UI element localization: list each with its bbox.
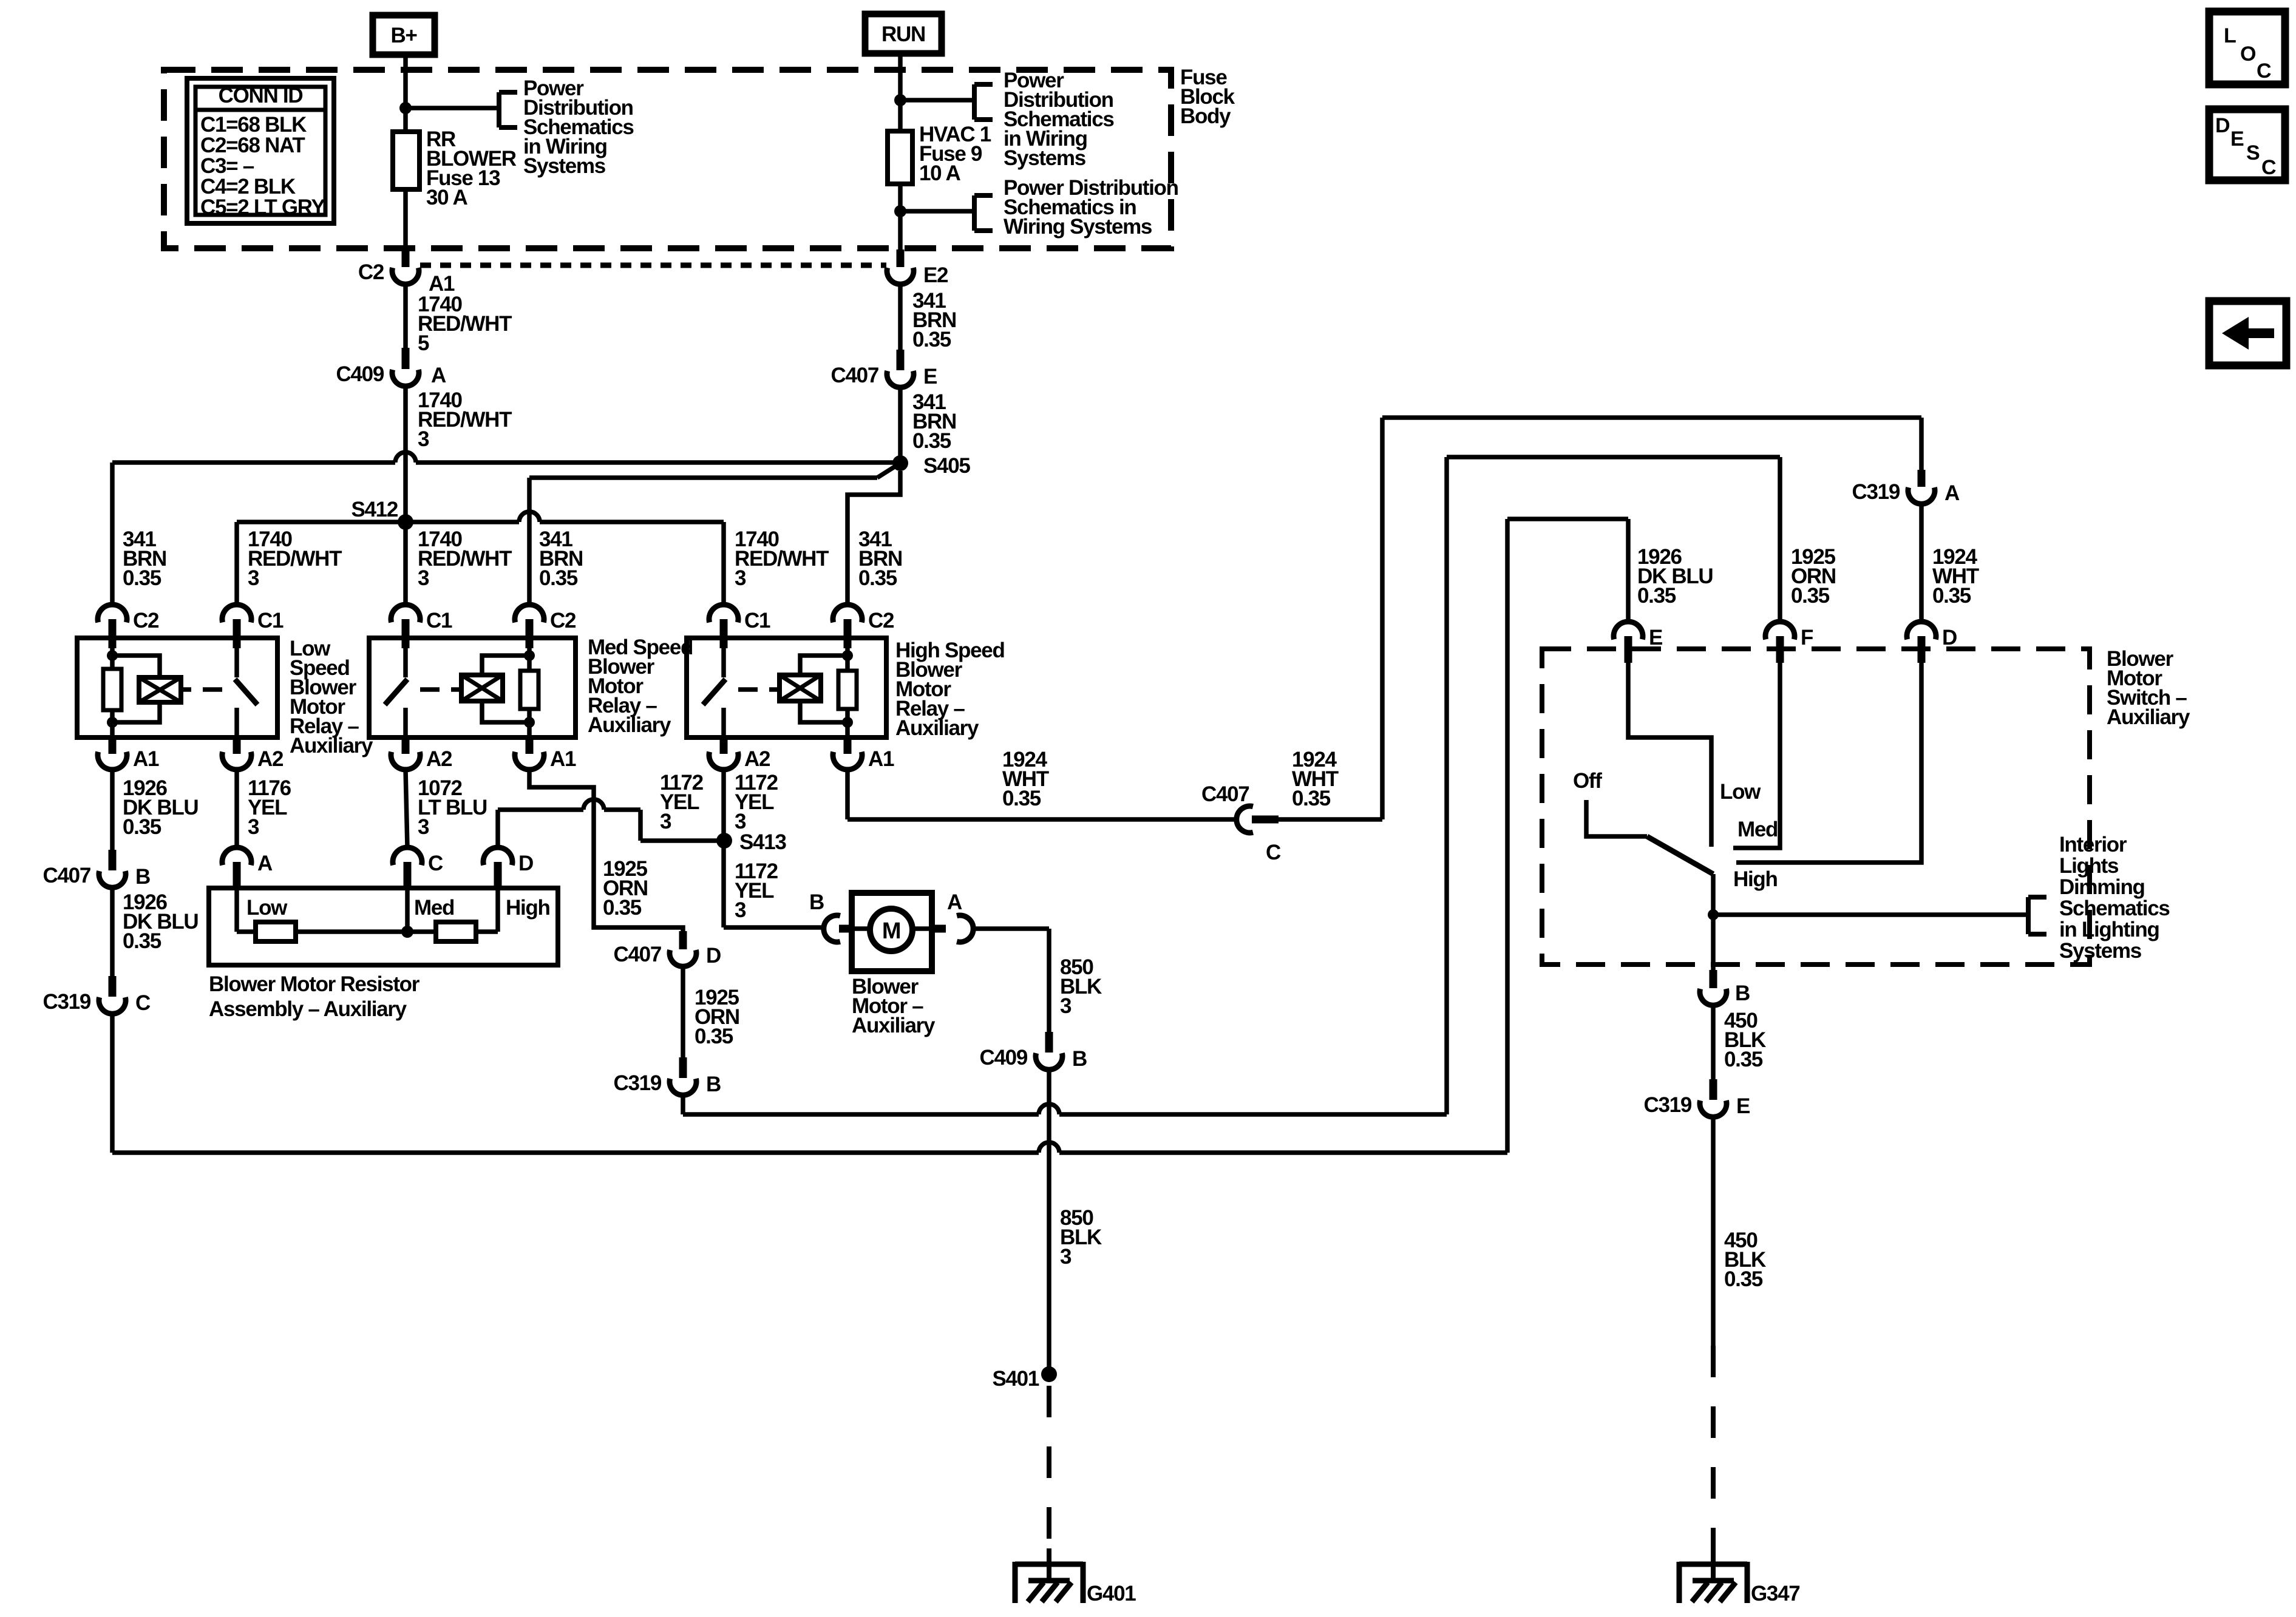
connector switch pin B (1710, 970, 1717, 988)
margin DESC box (2209, 109, 2285, 180)
connector motor pin B (824, 915, 840, 942)
resistor element low (256, 922, 296, 941)
svg-text:5: 5 (418, 331, 429, 355)
connector switch pin F (1765, 622, 1795, 639)
svg-text:A: A (1944, 481, 1960, 505)
wire C407D to C319B (681, 966, 685, 1057)
svg-text:3: 3 (1060, 1245, 1072, 1269)
svg-text:G347: G347 (1751, 1582, 1799, 1605)
svg-text:Med: Med (414, 896, 454, 920)
terminal RUN box (865, 14, 942, 53)
wire C319E down 450 BLK (1711, 1117, 1716, 1346)
ground G347 (1711, 1548, 1716, 1582)
svg-text:E: E (1649, 626, 1662, 649)
relay high coil link dashes (738, 687, 758, 692)
wire switch B to C319 E (1711, 1005, 1716, 1079)
svg-text:Med: Med (1737, 818, 1778, 841)
wire 1925 ORN to blower switch F (681, 1095, 685, 1114)
svg-text:Auxiliary: Auxiliary (2107, 705, 2190, 729)
node splice S401 (1041, 1366, 1057, 1382)
connector C319 pin B (679, 1057, 687, 1078)
off-page bracket interior lights dimming (2026, 897, 2031, 934)
relay low speed blower motor relay box (77, 638, 277, 737)
blower motor M circle (870, 909, 912, 951)
relay med coil resistor (527, 648, 532, 671)
svg-text:in Lighting: in Lighting (2059, 918, 2159, 941)
margin arrow box (2209, 301, 2286, 365)
svg-text:A1: A1 (550, 747, 576, 771)
svg-text:RED/WHT: RED/WHT (418, 408, 512, 432)
wire C409B to S401 (1047, 1070, 1051, 1374)
svg-text:3: 3 (418, 566, 429, 590)
relay med coil link dashes (420, 687, 440, 692)
svg-text:Body: Body (1180, 104, 1231, 128)
node resistor junction C (401, 926, 413, 938)
svg-text:C2: C2 (868, 609, 894, 632)
svg-text:0.35: 0.35 (858, 566, 897, 590)
connector C409 pin A (402, 348, 410, 369)
svg-text:A2: A2 (744, 747, 770, 771)
wire dashed to G347 (1711, 1346, 1716, 1550)
svg-text:Dimming: Dimming (2059, 875, 2145, 899)
svg-text:0.35: 0.35 (123, 566, 161, 590)
svg-text:C319: C319 (43, 990, 91, 1014)
fuse block body dashed box (164, 70, 1171, 248)
connector resistor pin D (483, 847, 512, 865)
svg-text:3: 3 (735, 566, 746, 590)
off-page bracket power distribution (RUN lower) (972, 195, 977, 231)
svg-text:C: C (1266, 841, 1281, 864)
switch off contact and arm (1586, 800, 1647, 836)
connector boundary dotted line C2-E2 (420, 263, 886, 268)
terminal B+ box (373, 15, 435, 55)
wire C319A to switch D (1919, 504, 1924, 622)
CONN ID table box (187, 78, 334, 223)
svg-text:Systems: Systems (523, 154, 606, 178)
svg-text:High: High (506, 896, 550, 920)
relay low coil link dashes (181, 687, 191, 692)
svg-text:3: 3 (418, 427, 429, 451)
fuse HVAC 1 Fuse 9 10 A (888, 131, 912, 184)
connector motor pin A (932, 925, 946, 933)
wire C409 to S412 (403, 386, 408, 522)
svg-text:A2: A2 (426, 747, 452, 771)
svg-text:0.35: 0.35 (603, 896, 642, 920)
wire 1924 WHT high A1 to C407 C (845, 770, 850, 819)
blower motor switch dashed box (1542, 649, 2090, 964)
resistor element med (436, 922, 476, 941)
connector pin C2 med relay (515, 605, 544, 622)
svg-text:RED/WHT: RED/WHT (418, 312, 512, 336)
svg-text:C407: C407 (614, 943, 661, 966)
svg-text:B: B (135, 865, 150, 889)
svg-text:A1: A1 (868, 747, 894, 771)
svg-text:RED/WHT: RED/WHT (418, 547, 512, 571)
svg-text:Assembly – Auxiliary: Assembly – Auxiliary (209, 997, 407, 1021)
wire S412 to high relay C1 (721, 522, 726, 606)
svg-text:0.35: 0.35 (123, 815, 161, 839)
relay med coil (482, 656, 529, 675)
off-page bracket power distribution (B+) (497, 92, 501, 127)
relay high speed blower motor relay box (687, 638, 886, 737)
connector pin A2 low relay (233, 737, 241, 754)
svg-text:0.35: 0.35 (1292, 787, 1331, 810)
svg-text:0.35: 0.35 (1724, 1048, 1763, 1071)
svg-text:C1: C1 (426, 609, 452, 632)
wire C407E to S405 (898, 387, 903, 463)
node splice S412 (398, 514, 413, 530)
connector C319 pin A (1918, 470, 1926, 487)
margin LOC box (2209, 12, 2285, 84)
svg-text:3: 3 (248, 566, 259, 590)
wire fuse HVAC to connector E2 (898, 184, 903, 251)
relay med speed blower motor relay box (369, 638, 576, 737)
svg-text:S405: S405 (923, 454, 970, 478)
svg-text:C: C (135, 991, 151, 1015)
svg-text:C2: C2 (358, 260, 384, 284)
svg-text:RUN: RUN (881, 22, 925, 46)
wire 341 BRN from S405 to low relay C2 (112, 460, 395, 465)
svg-text:Low: Low (246, 896, 288, 920)
ground G401 (1047, 1548, 1051, 1582)
svg-text:E2: E2 (923, 263, 948, 287)
svg-text:Systems: Systems (2059, 939, 2142, 963)
wire S412 to low relay C1 (234, 522, 239, 606)
svg-text:C407: C407 (43, 864, 90, 887)
svg-text:Off: Off (1573, 769, 1602, 793)
svg-text:C1: C1 (257, 609, 284, 632)
switch contact High from D (1736, 663, 1921, 863)
wire S412 horizontal 1740 RED/WHT (237, 520, 519, 524)
svg-text:O: O (2240, 42, 2256, 66)
relay med internal nodes (524, 650, 535, 661)
svg-text:C407: C407 (831, 364, 878, 387)
switch contact Low from E (1628, 663, 1711, 847)
svg-text:S413: S413 (739, 830, 786, 854)
relay low coil resistor (110, 648, 115, 669)
svg-text:0.35: 0.35 (123, 929, 161, 953)
connector C407 pin B (109, 850, 117, 870)
svg-text:C409: C409 (336, 362, 384, 386)
connector pin A1 high relay (844, 737, 852, 754)
wire high A2 to S413 and motor (721, 770, 726, 841)
wire dashed S401 to G401 (1047, 1386, 1051, 1550)
svg-text:S: S (2246, 141, 2260, 164)
svg-text:C: C (2257, 59, 2271, 83)
node junction on RUN feed lower (894, 205, 906, 217)
wire low A2 to resistor A (234, 770, 239, 847)
connector pin C2 high relay (833, 605, 862, 622)
svg-text:S401: S401 (992, 1367, 1039, 1391)
svg-text:B: B (1072, 1047, 1087, 1071)
wire S412 to med relay C1 (403, 522, 408, 606)
svg-text:A: A (947, 890, 962, 914)
svg-text:30 A: 30 A (426, 186, 467, 209)
off-page bracket power distribution (RUN upper) (972, 84, 977, 120)
svg-text:0.35: 0.35 (1791, 584, 1830, 608)
relay high internal nodes (842, 650, 853, 661)
svg-text:A1: A1 (133, 747, 159, 771)
svg-text:C2: C2 (133, 609, 159, 632)
svg-text:C409: C409 (980, 1046, 1028, 1070)
connector pin A2 med relay (402, 737, 410, 754)
wire med A2 to resistor C (406, 770, 407, 847)
wire motor A to C409 B 850 BLK (973, 926, 1049, 931)
svg-text:B: B (1735, 981, 1750, 1005)
svg-text:D: D (2215, 114, 2230, 137)
wire switch common to interior lights ref (1713, 912, 2028, 917)
svg-text:0.35: 0.35 (1002, 787, 1041, 810)
connector resistor pin A (222, 847, 251, 865)
connector C409 pin B (1045, 1032, 1053, 1053)
svg-text:Wiring Systems: Wiring Systems (1004, 215, 1152, 239)
svg-text:F: F (1801, 626, 1813, 649)
svg-text:C5=2 LT GRY: C5=2 LT GRY (200, 195, 325, 219)
svg-text:3: 3 (248, 815, 259, 839)
svg-text:CONN ID: CONN ID (219, 84, 303, 107)
wire resistor D riser 1172 YEL (495, 810, 500, 847)
relay high coil (800, 656, 847, 675)
svg-text:C319: C319 (1852, 480, 1900, 504)
relay med switch (403, 638, 408, 677)
svg-text:0.35: 0.35 (695, 1025, 733, 1048)
svg-text:C319: C319 (1644, 1093, 1692, 1117)
connector switch pin D (1907, 622, 1936, 639)
relay high coil resistor (845, 648, 850, 671)
svg-text:B: B (809, 890, 824, 914)
svg-text:3: 3 (1060, 994, 1072, 1018)
svg-text:M: M (882, 918, 900, 944)
fuse RR BLOWER Fuse 13 30 A (393, 132, 419, 189)
svg-text:A: A (257, 852, 273, 875)
svg-text:C: C (2261, 156, 2276, 179)
connector pin C1 med relay (391, 605, 420, 622)
connector pin C1 high relay (709, 605, 738, 622)
blower motor resistor assembly box (209, 888, 558, 965)
connector pin C1 low relay (222, 605, 251, 622)
connector pin C2 low relay (98, 605, 127, 622)
svg-text:A: A (431, 364, 446, 387)
connector C319 pin C (109, 976, 117, 997)
svg-text:0.35: 0.35 (539, 566, 578, 590)
connector C407 pin C (1237, 806, 1253, 833)
svg-text:D: D (1942, 626, 1957, 649)
connector pin A1 med relay (526, 737, 534, 754)
svg-text:Auxiliary: Auxiliary (588, 713, 671, 737)
relay low internal nodes (107, 650, 118, 661)
svg-text:Interior: Interior (2059, 833, 2127, 856)
node splice S405 (892, 455, 908, 471)
svg-text:0.35: 0.35 (912, 429, 951, 453)
connector resistor pin C (393, 847, 422, 865)
svg-text:High: High (1733, 867, 1778, 891)
svg-text:D: D (706, 944, 721, 968)
svg-text:C: C (428, 852, 443, 875)
svg-text:RED/WHT: RED/WHT (735, 547, 829, 571)
svg-text:0.35: 0.35 (912, 328, 951, 351)
wire fuse to connector C2 (403, 189, 408, 247)
svg-text:C319: C319 (614, 1071, 662, 1095)
wire 341 BRN from S405 to med relay C2 (877, 463, 900, 478)
svg-text:Lights: Lights (2059, 854, 2119, 878)
svg-text:Blower Motor Resistor: Blower Motor Resistor (209, 972, 420, 996)
connector C2 pin A1 (402, 246, 410, 267)
blower motor box (852, 893, 932, 971)
svg-text:RED/WHT: RED/WHT (248, 547, 342, 571)
svg-text:3: 3 (660, 810, 671, 833)
wire low A1 to C407 B (110, 770, 115, 850)
wire RUN to fuse HVAC1 (898, 53, 903, 131)
connector pin A1 low relay (109, 737, 117, 754)
resistor assembly internal wires (234, 890, 239, 932)
relay low coil (112, 656, 160, 677)
node junction on B+ feed (399, 102, 412, 114)
connector C407 pin E (897, 350, 905, 370)
svg-text:C1: C1 (744, 609, 770, 632)
svg-text:0.35: 0.35 (1724, 1267, 1763, 1291)
relay high switch (721, 638, 726, 677)
wire 1926 DK BLU to blower switch E (110, 1014, 115, 1153)
svg-text:0.35: 0.35 (1637, 584, 1676, 608)
svg-text:Auxiliary: Auxiliary (290, 734, 373, 758)
node junction on RUN feed upper (894, 94, 906, 106)
svg-text:Low: Low (1720, 780, 1761, 804)
wire branch to power distribution ref (B+) (406, 106, 499, 110)
svg-text:S412: S412 (351, 498, 398, 521)
connector pin A2 high relay (720, 737, 728, 754)
svg-text:B+: B+ (390, 24, 417, 47)
wire branch to power distribution ref (RUN lower) (900, 209, 974, 214)
wire branch to power distribution ref (RUN upper) (900, 98, 974, 103)
svg-text:E: E (1736, 1094, 1750, 1118)
svg-text:D: D (518, 852, 533, 875)
svg-text:10 A: 10 A (919, 161, 960, 185)
node splice S413 (716, 833, 732, 849)
svg-text:Schematics: Schematics (2059, 897, 2170, 920)
svg-text:3: 3 (735, 898, 746, 922)
svg-text:0.35: 0.35 (1932, 584, 1971, 608)
svg-text:Auxiliary: Auxiliary (895, 716, 979, 740)
wire C2 to C409 (403, 284, 408, 348)
connector switch pin E (1614, 622, 1643, 639)
svg-text:A2: A2 (257, 747, 284, 771)
wire 1925 ORN med A1 to C407 D (529, 770, 683, 931)
svg-text:C2: C2 (550, 609, 576, 632)
wire C407B to C319C (110, 887, 115, 976)
connector E2 pin (897, 249, 905, 267)
wire B+ to fuse (403, 55, 408, 132)
node switch common junction (1708, 909, 1719, 920)
wire E2 to C407E (898, 284, 903, 350)
svg-text:C407: C407 (1201, 782, 1249, 806)
svg-text:3: 3 (418, 815, 429, 839)
svg-text:G401: G401 (1087, 1582, 1136, 1605)
connector C407 pin D (679, 931, 687, 949)
svg-text:Auxiliary: Auxiliary (852, 1014, 936, 1037)
wire 341 BRN from S405 to high relay C2 (847, 471, 900, 606)
svg-text:L: L (2224, 24, 2236, 47)
wire C407C to C319 A (1279, 817, 1382, 822)
connector C319 pin E (1710, 1079, 1717, 1100)
svg-text:Systems: Systems (1004, 146, 1086, 170)
svg-text:B: B (706, 1073, 721, 1096)
relay low switch (234, 638, 239, 677)
svg-text:E: E (2230, 127, 2244, 151)
switch contact Med from F (1733, 663, 1780, 848)
svg-text:E: E (923, 365, 937, 388)
